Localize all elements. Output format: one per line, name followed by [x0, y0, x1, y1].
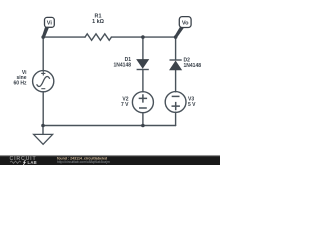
ground stub	[42, 126, 44, 135]
svg-text:Vo: Vo	[182, 21, 189, 27]
watermark text	[57, 156, 110, 164]
wire D2 to V3	[175, 70, 177, 92]
wire D1 to V2	[142, 70, 144, 92]
svg-text:7 V: 7 V	[121, 102, 129, 108]
ground	[34, 134, 53, 144]
voltage source V3	[165, 92, 186, 113]
D1 labels	[113, 57, 131, 69]
svg-text:1 kΩ: 1 kΩ	[92, 19, 104, 25]
node junction bottom bus / V2	[141, 124, 145, 128]
wire bottom bus	[43, 125, 176, 127]
node Vi (junction dot, top left)	[41, 35, 45, 39]
probe label Vo	[174, 17, 191, 38]
node junction bottom bus / ground	[41, 124, 45, 128]
svg-text:htlp://circuitlab.com/c88qf6ak: htlp://circuitlab.com/c88qf6ak5ozjm	[57, 160, 110, 164]
wire left column lower	[42, 92, 44, 126]
V2 labels	[121, 97, 129, 109]
svg-text:1N4148: 1N4148	[113, 63, 131, 69]
svg-text:5 V: 5 V	[188, 102, 196, 108]
diode D2	[170, 60, 182, 70]
watermark bar	[0, 155, 220, 157]
wire top horizontal left	[43, 36, 85, 38]
wire top horizontal right	[111, 36, 175, 38]
CircuitLab logo	[10, 156, 38, 165]
wire D2 branch top	[175, 37, 177, 60]
voltage source Vi (sine)	[33, 71, 54, 92]
node Vo (junction dot, top right corner)	[174, 35, 178, 39]
voltage source V2	[132, 92, 153, 113]
Vi labels	[13, 70, 27, 87]
wire V3 to bus	[175, 112, 177, 125]
R1 labels	[92, 14, 104, 25]
svg-text:LAB: LAB	[28, 160, 38, 165]
probe label Vi	[42, 17, 54, 37]
svg-text:60 Hz: 60 Hz	[13, 80, 27, 86]
D2 labels	[184, 58, 202, 70]
wire D1 branch top	[142, 37, 144, 59]
V3 labels	[188, 97, 196, 109]
diode D1	[137, 60, 149, 70]
svg-text:1N4148: 1N4148	[184, 63, 202, 69]
svg-text:Vi: Vi	[47, 21, 53, 27]
node junction top wire / D1 branch	[141, 35, 145, 39]
wire left column upper	[42, 37, 44, 71]
wire V2 to bus	[142, 113, 144, 126]
resistor R1	[85, 34, 111, 40]
